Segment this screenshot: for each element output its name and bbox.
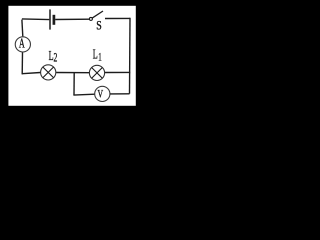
svg-text:S: S (96, 19, 102, 32)
label L1 (93, 48, 102, 64)
voltmeter branch wire to voltmeter (73, 93, 94, 96)
svg-text:L2: L2 (49, 49, 58, 65)
frame background (0, 0, 144, 112)
voltmeter circle (95, 86, 110, 101)
voltmeter branch: tee down from bottom wire (73, 73, 75, 95)
wire battery to switch (55, 18, 89, 20)
svg-text:V: V (98, 88, 104, 101)
switch blade (open) (92, 11, 103, 18)
battery short thick plate (-) (53, 15, 56, 25)
lamp L2 circle (41, 65, 56, 80)
voltmeter letter V (98, 88, 104, 101)
lamp L2 cross (43, 67, 54, 78)
ammeter circle (15, 37, 30, 52)
wire switch to top-right corner (105, 17, 130, 19)
svg-text:A: A (19, 37, 25, 52)
wire lamp L2 to bottom-left corner (22, 73, 40, 74)
battery long plate (+) (49, 9, 51, 29)
left wire: bottom corner up to ammeter (21, 52, 23, 74)
right wire down to voltmeter branch corner (129, 18, 132, 94)
left wire: ammeter up to top-left corner (21, 20, 24, 37)
label L2 (49, 49, 58, 65)
bottom wire: right tee to lamp L1 (105, 71, 130, 73)
switch pivot circle (89, 17, 92, 20)
wire top-left corner to battery (22, 18, 49, 21)
wire lamp L1 to lamp L2 (56, 72, 89, 74)
lamp L1 cross (92, 68, 103, 79)
voltmeter branch wire to right wire (110, 93, 130, 95)
white panel (8, 6, 135, 106)
lamp L1 circle (89, 65, 104, 80)
ammeter letter A (19, 37, 25, 52)
label S (96, 19, 102, 32)
